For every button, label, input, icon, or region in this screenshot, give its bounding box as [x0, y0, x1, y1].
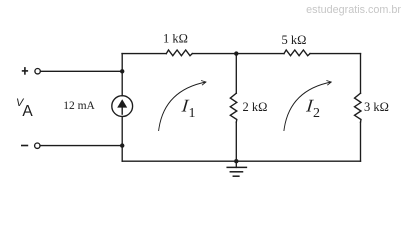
svg-text:estudegratis.com.br: estudegratis.com.br	[306, 4, 401, 16]
wire right vertical lower	[360, 122, 362, 161]
svg-text:1: 1	[189, 106, 196, 121]
current source arrow shaft	[121, 101, 123, 115]
junction node bottom middle	[234, 159, 238, 163]
wire middle vertical lower	[235, 122, 237, 161]
junction node plus lead	[120, 69, 124, 73]
svg-text:2: 2	[313, 106, 320, 121]
wire plus terminal lead	[41, 70, 122, 72]
svg-text:1 kΩ: 1 kΩ	[163, 32, 188, 46]
plus sign	[22, 67, 28, 75]
resistor R4 3kohm zigzag	[355, 93, 362, 122]
wire left vertical upper	[121, 54, 123, 96]
resistor R1 1kohm zigzag	[166, 50, 192, 56]
mesh current I1 arrow arc	[159, 81, 206, 132]
current source IS circle	[112, 96, 133, 117]
wire minus terminal lead	[41, 145, 123, 147]
svg-text:2 kΩ: 2 kΩ	[243, 100, 268, 114]
ground bar 2	[230, 171, 242, 173]
wire right vertical upper	[360, 54, 362, 94]
junction node minus lead	[120, 143, 124, 147]
minus sign	[21, 145, 28, 147]
label I1	[180, 96, 192, 116]
wire bottom	[122, 160, 360, 162]
wire top middle segment	[192, 53, 284, 55]
svg-text:12 mA: 12 mA	[63, 100, 95, 112]
mesh current I2 arrow arc	[284, 81, 331, 132]
ground bar 1	[227, 166, 246, 168]
svg-text:5 kΩ: 5 kΩ	[282, 33, 307, 47]
junction node top middle	[234, 51, 238, 55]
current source arrow head	[117, 99, 127, 107]
terminal circle minus	[35, 143, 40, 148]
resistor R3 2kohm zigzag	[230, 93, 237, 122]
wire top right segment	[310, 53, 361, 55]
svg-text:3 kΩ: 3 kΩ	[364, 100, 389, 114]
wire top left segment	[122, 53, 166, 55]
svg-text:A: A	[22, 103, 33, 120]
ground bar 3	[233, 175, 239, 177]
terminal circle plus	[35, 69, 40, 74]
resistor R2 5kohm zigzag	[284, 50, 310, 56]
wire left vertical lower	[121, 117, 123, 162]
ground stem	[235, 161, 237, 167]
label I2	[304, 96, 316, 116]
wire middle vertical upper	[235, 54, 237, 94]
